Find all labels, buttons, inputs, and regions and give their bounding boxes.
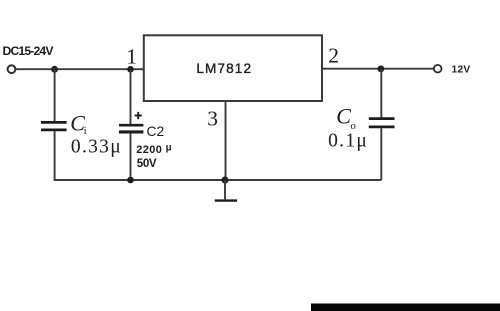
wire: pin 2 to output xyxy=(322,68,434,70)
node: junction output/Co xyxy=(378,66,385,73)
capacitor Ci plates xyxy=(41,121,67,124)
capacitor Ci : bottom lead xyxy=(54,131,56,180)
wire: input to pin 1 of U1 xyxy=(16,68,144,70)
svg-text:i: i xyxy=(84,125,87,137)
svg-text:50V: 50V xyxy=(137,157,157,170)
ground symbol stem xyxy=(224,180,226,199)
svg-text:DC15-24V: DC15-24V xyxy=(3,44,55,58)
node 1: junction wire/C2 xyxy=(127,66,134,73)
svg-text:3: 3 xyxy=(207,106,218,130)
node: junction input/Ci xyxy=(51,66,58,73)
capacitor Ci : top lead xyxy=(54,69,56,121)
op-amp / regulator U1 LM7812 box xyxy=(144,35,322,101)
polarity + mark xyxy=(135,112,142,119)
svg-text:12V: 12V xyxy=(452,65,471,76)
svg-text:2: 2 xyxy=(328,43,339,67)
wire: pin 3 down to ground rail xyxy=(225,101,227,180)
svg-text:0.1μ: 0.1μ xyxy=(328,130,368,151)
input terminal (open circle) xyxy=(8,65,16,73)
node: rail/C2 junction xyxy=(127,177,134,184)
svg-text:1: 1 xyxy=(126,45,137,69)
svg-text:2200 μ: 2200 μ xyxy=(136,143,172,156)
svg-text:LM7812: LM7812 xyxy=(196,61,252,76)
capacitor C2 plates xyxy=(119,124,143,127)
node: rail/pin3 junction xyxy=(221,176,228,183)
svg-text:0.33μ: 0.33μ xyxy=(71,137,122,158)
ground symbol bar xyxy=(215,199,237,201)
svg-text:C2: C2 xyxy=(147,124,165,139)
capacitor Co : bottom lead xyxy=(380,128,382,180)
capacitor C2 : top lead xyxy=(130,69,132,124)
capacitor Co plates xyxy=(369,117,395,120)
capacitor C2 : bottom lead xyxy=(130,133,132,180)
svg-text:C: C xyxy=(336,104,351,129)
ground rail (bottom wire) xyxy=(54,179,382,181)
output terminal (open circle) xyxy=(434,65,442,73)
capacitor Co : top lead xyxy=(380,69,382,118)
watermark bar (bottom-right dark strip) xyxy=(311,304,500,311)
